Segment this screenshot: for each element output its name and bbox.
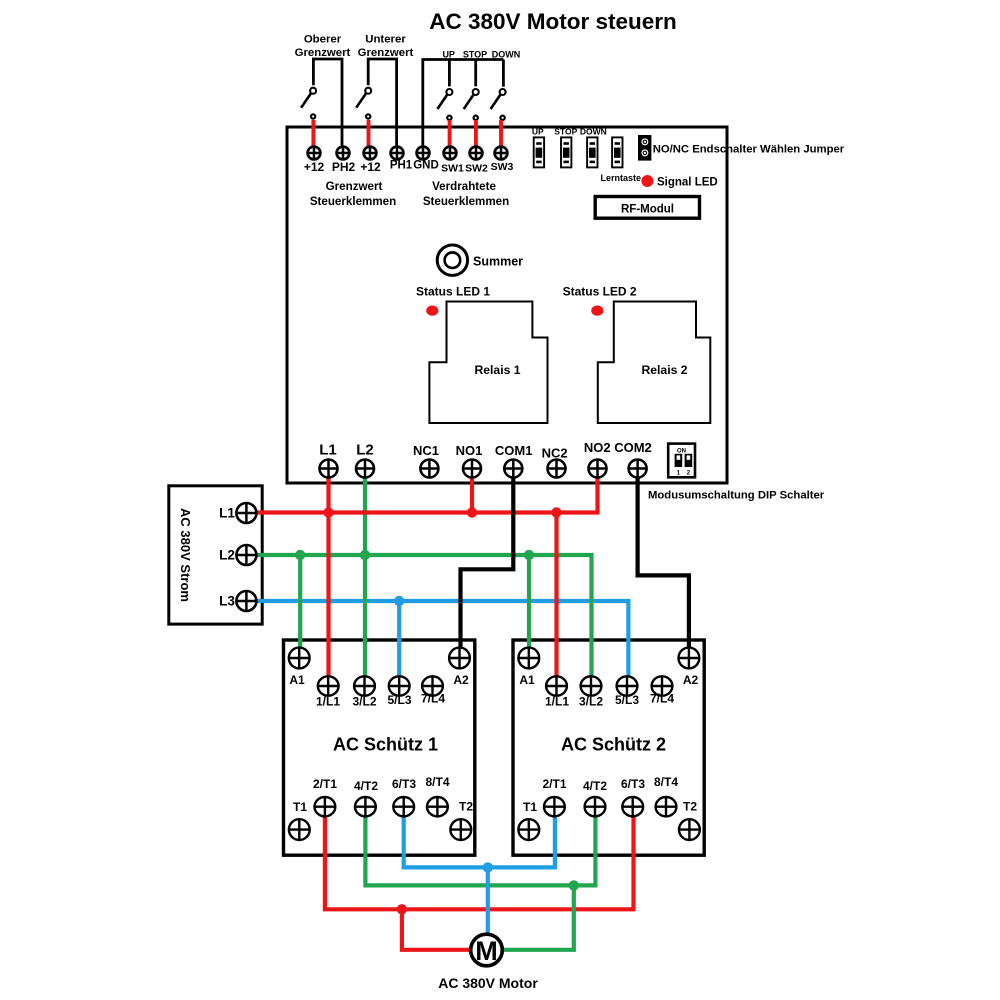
terminal K1 6/T3 bbox=[393, 797, 414, 816]
svg-text:ON: ON bbox=[677, 448, 686, 454]
node green junction A1-K2 bbox=[524, 550, 534, 560]
terminal K2 T2 bbox=[679, 819, 700, 840]
svg-text:2/T1: 2/T1 bbox=[542, 777, 566, 791]
svg-text:4/T2: 4/T2 bbox=[354, 779, 378, 793]
contactor AC Schuetz 1 box bbox=[284, 640, 475, 855]
svg-text:L2: L2 bbox=[356, 442, 374, 459]
svg-text:DOWN: DOWN bbox=[580, 127, 607, 137]
AC 380V supply box bbox=[169, 486, 262, 624]
terminal K1 T2 bbox=[450, 819, 471, 840]
svg-text:3/L2: 3/L2 bbox=[579, 695, 603, 709]
terminal L2 supply bbox=[236, 545, 256, 565]
svg-text:Status LED 1: Status LED 1 bbox=[416, 285, 490, 299]
svg-text:Summer: Summer bbox=[473, 255, 523, 269]
terminal SW2 bbox=[470, 147, 483, 160]
svg-text:GND: GND bbox=[413, 160, 439, 172]
wire green K1 4/T2 to K2 4/T2 bbox=[365, 807, 595, 886]
svg-text:8/T4: 8/T4 bbox=[654, 775, 678, 789]
wire blue branch to K1 5/L3 bbox=[397, 601, 401, 686]
terminal L2 board bbox=[356, 460, 374, 478]
terminal K2 2/T1 bbox=[544, 797, 565, 816]
svg-text:Modusumschaltung DIP Schalter: Modusumschaltung DIP Schalter bbox=[648, 490, 825, 502]
relay K1 Relais 1 outline bbox=[429, 302, 547, 424]
svg-text:AC 380V Motor steuern: AC 380V Motor steuern bbox=[429, 9, 677, 34]
svg-text:2/T1: 2/T1 bbox=[313, 777, 337, 791]
terminal K1 T1 bbox=[289, 819, 310, 840]
terminal K2 8/T4 bbox=[656, 797, 677, 816]
svg-text:RF-Modul: RF-Modul bbox=[621, 203, 674, 215]
svg-text:Grenzwert: Grenzwert bbox=[326, 180, 383, 193]
terminal L3 supply bbox=[236, 591, 256, 611]
slide switch S-STOP bbox=[561, 137, 571, 167]
wire red K1 2/T1 to motor bus bbox=[325, 807, 634, 910]
terminal K2 4/T2 bbox=[585, 797, 606, 816]
svg-text:6/T3: 6/T3 bbox=[392, 777, 416, 791]
terminal K2 T1 bbox=[518, 819, 539, 840]
svg-text:L1: L1 bbox=[219, 506, 235, 521]
wire blue branch to motor bbox=[486, 867, 490, 935]
terminal K1 2/T1 bbox=[315, 797, 336, 816]
svg-text:A1: A1 bbox=[519, 673, 535, 687]
svg-text:T2: T2 bbox=[459, 800, 473, 814]
node green junction A1-K1 bbox=[295, 550, 305, 560]
svg-text:7/L4: 7/L4 bbox=[650, 692, 674, 706]
terminal COM1 bbox=[504, 460, 522, 478]
wire green branch to K1 A1 bbox=[298, 555, 302, 658]
terminal SW3 bbox=[495, 147, 508, 160]
svg-text:L1: L1 bbox=[319, 442, 337, 459]
terminal K2 5/L3 bbox=[617, 676, 638, 695]
upper limit switch S-OG bbox=[310, 88, 316, 94]
slide switch S4 learn bbox=[612, 137, 622, 167]
svg-text:NO1: NO1 bbox=[456, 443, 483, 458]
terminal K1 3/L2 bbox=[354, 676, 375, 695]
svg-text:1/L1: 1/L1 bbox=[545, 695, 569, 709]
signal LED D3 bbox=[641, 175, 653, 187]
svg-text:Steuerklemmen: Steuerklemmen bbox=[310, 195, 396, 208]
svg-text:AC 380V Strom: AC 380V Strom bbox=[178, 508, 193, 602]
terminal NO2 bbox=[589, 460, 607, 478]
red stub wires from switch contacts to terminals bbox=[311, 120, 315, 147]
svg-text:3/L2: 3/L2 bbox=[352, 695, 376, 709]
svg-text:M: M bbox=[475, 936, 498, 966]
node red junction L1 bbox=[323, 507, 333, 517]
node red junction K2 feed bbox=[551, 507, 561, 517]
svg-text:Signal LED: Signal LED bbox=[657, 176, 718, 188]
motor M1 bbox=[471, 934, 503, 966]
wired buttons bracket wire to GND bbox=[423, 60, 504, 151]
terminal K1 A1 bbox=[289, 648, 310, 669]
svg-text:+12: +12 bbox=[360, 160, 381, 174]
terminal L1 supply bbox=[236, 503, 256, 523]
svg-text:T1: T1 bbox=[293, 800, 307, 814]
wire red branch NO1 bbox=[470, 469, 474, 513]
node blue L3 junction bbox=[394, 596, 404, 606]
buzzer Summer bbox=[437, 245, 467, 275]
terminal PH2 bbox=[337, 147, 350, 160]
wire red branch to K2 1/L1 bbox=[554, 513, 558, 687]
svg-text:5/L3: 5/L3 bbox=[615, 693, 639, 707]
terminal +12 (2) bbox=[364, 147, 377, 160]
svg-text:A2: A2 bbox=[453, 673, 469, 687]
svg-text:Status LED 2: Status LED 2 bbox=[563, 285, 637, 299]
wire red L1 board to K1 1/L1 bbox=[326, 469, 330, 687]
svg-text:COM1: COM1 bbox=[495, 443, 533, 458]
svg-text:Relais 2: Relais 2 bbox=[641, 363, 687, 377]
terminal GND bbox=[417, 147, 430, 160]
node red junction NO1 bbox=[467, 507, 477, 517]
DIP switch S5 mode bbox=[668, 444, 695, 478]
slide switch S-UP bbox=[534, 137, 544, 167]
terminal K2 6/T3 bbox=[622, 797, 643, 816]
lower limit switch S-UG bbox=[365, 88, 371, 94]
svg-text:STOP: STOP bbox=[463, 50, 487, 60]
svg-text:4/T2: 4/T2 bbox=[583, 779, 607, 793]
terminal K1 8/T4 bbox=[427, 797, 448, 816]
terminal +12 (1) bbox=[308, 147, 321, 160]
svg-text:Grenzwert: Grenzwert bbox=[358, 47, 414, 59]
svg-text:SW1: SW1 bbox=[441, 163, 464, 175]
wire L3 blue main run bbox=[250, 601, 628, 686]
wire red branch to motor bbox=[402, 909, 471, 950]
terminal L1 board bbox=[320, 460, 338, 478]
lower limit switch S-UG bracket wire bbox=[368, 59, 396, 150]
svg-text:SW3: SW3 bbox=[491, 161, 514, 173]
terminal K1 5/L3 bbox=[389, 676, 410, 695]
button S-STOP bbox=[473, 89, 479, 95]
wire L1 red main run to NO2 bbox=[250, 469, 598, 513]
wire L2 green main run bbox=[250, 555, 592, 686]
wire green branch to K2 A1 bbox=[527, 555, 531, 658]
terminal K2 A2 bbox=[679, 648, 700, 669]
wire green L2 board to K1 3/L2 bbox=[363, 469, 367, 687]
svg-text:T1: T1 bbox=[523, 800, 537, 814]
terminal NC2 bbox=[548, 460, 566, 478]
relay K2 Relais 2 outline bbox=[598, 302, 711, 424]
svg-text:8/T4: 8/T4 bbox=[425, 775, 449, 789]
svg-text:A1: A1 bbox=[289, 673, 305, 687]
controller board outline bbox=[287, 127, 727, 483]
button S-DOWN bbox=[500, 89, 506, 95]
svg-text:NC2: NC2 bbox=[542, 446, 568, 461]
svg-text:NO2: NO2 bbox=[584, 440, 611, 455]
svg-text:AC Schütz 2: AC Schütz 2 bbox=[561, 735, 666, 755]
svg-text:5/L3: 5/L3 bbox=[387, 693, 411, 707]
terminal K2 7/L4 bbox=[652, 676, 673, 695]
svg-text:AC 380V Motor: AC 380V Motor bbox=[438, 975, 538, 991]
svg-text:UP: UP bbox=[442, 50, 455, 60]
node blue motor junction bbox=[483, 862, 493, 872]
terminal K2 A1 bbox=[518, 648, 539, 669]
svg-text:NC1: NC1 bbox=[413, 443, 439, 458]
upper limit switch S-OG bracket wire bbox=[313, 59, 342, 150]
svg-text:AC Schütz 1: AC Schütz 1 bbox=[333, 735, 438, 755]
terminal COM2 bbox=[629, 460, 647, 478]
svg-text:Grenzwert: Grenzwert bbox=[295, 47, 351, 59]
svg-text:A2: A2 bbox=[683, 673, 699, 687]
wire COM1 black to K1 A2 bbox=[461, 469, 514, 659]
svg-text:Verdrahtete: Verdrahtete bbox=[432, 180, 496, 193]
terminal NO1 bbox=[463, 460, 481, 478]
terminal NC1 bbox=[420, 460, 438, 478]
terminal PH1 bbox=[391, 147, 404, 160]
node green motor junction bbox=[569, 880, 579, 890]
button S-UP bbox=[446, 89, 452, 95]
svg-text:T2: T2 bbox=[683, 800, 697, 814]
svg-text:NO/NC Endschalter Wählen Jumpe: NO/NC Endschalter Wählen Jumper bbox=[653, 144, 845, 156]
node green junction L2 bbox=[360, 550, 370, 560]
RF module U-RF box bbox=[595, 197, 699, 219]
svg-text:+12: +12 bbox=[304, 160, 325, 174]
svg-text:UP: UP bbox=[532, 127, 544, 137]
svg-text:Unterer: Unterer bbox=[365, 34, 406, 46]
terminal K1 A2 bbox=[449, 648, 470, 669]
svg-text:6/T3: 6/T3 bbox=[621, 777, 645, 791]
svg-text:1/L1: 1/L1 bbox=[316, 695, 340, 709]
jumper J1 NO/NC select bbox=[638, 135, 651, 161]
wire green branch to motor bbox=[502, 885, 574, 949]
terminal K1 7/L4 bbox=[422, 676, 443, 695]
terminal K2 1/L1 bbox=[546, 676, 567, 695]
node red motor junction bbox=[397, 904, 407, 914]
svg-text:Lerntaste: Lerntaste bbox=[601, 173, 642, 183]
svg-text:PH2: PH2 bbox=[332, 160, 356, 174]
svg-text:Oberer: Oberer bbox=[304, 34, 342, 46]
slide switch S-DOWN bbox=[587, 137, 597, 167]
svg-text:COM2: COM2 bbox=[614, 440, 652, 455]
svg-text:L2: L2 bbox=[219, 548, 235, 563]
svg-text:7/L4: 7/L4 bbox=[421, 692, 445, 706]
terminal K1 4/T2 bbox=[355, 797, 376, 816]
terminal K1 1/L1 bbox=[318, 676, 339, 695]
svg-text:STOP: STOP bbox=[554, 127, 577, 137]
svg-text:PH1: PH1 bbox=[390, 160, 413, 172]
terminal SW1 bbox=[444, 147, 457, 160]
svg-text:L3: L3 bbox=[219, 594, 235, 609]
wire COM2 black to K2 A2 bbox=[638, 469, 689, 659]
svg-text:DOWN: DOWN bbox=[492, 50, 521, 60]
wire red K2 6/T3 drop bbox=[631, 807, 635, 912]
svg-text:Relais 1: Relais 1 bbox=[474, 363, 520, 377]
svg-text:Steuerklemmen: Steuerklemmen bbox=[423, 195, 509, 208]
terminal K2 3/L2 bbox=[581, 676, 602, 695]
wire blue K1 6/T3 to K2 2/T1 bbox=[404, 807, 555, 868]
contactor AC Schuetz 2 box bbox=[513, 640, 704, 855]
svg-text:SW2: SW2 bbox=[465, 163, 488, 175]
